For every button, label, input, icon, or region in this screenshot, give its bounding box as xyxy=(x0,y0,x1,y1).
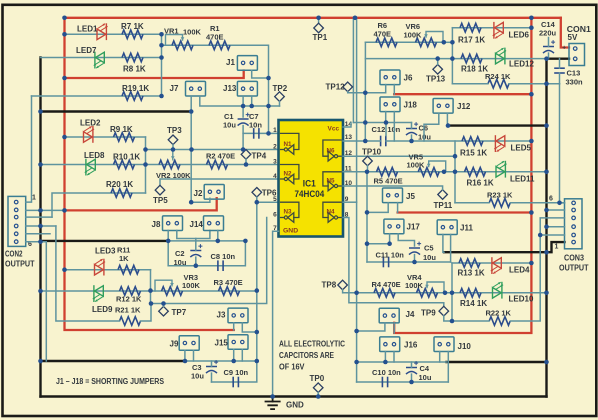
wire J16 legs xyxy=(384,352,386,362)
connector CON1 xyxy=(569,44,585,66)
jumper J6 xyxy=(380,70,400,85)
test point TP9 xyxy=(439,306,449,316)
svg-text:J17: J17 xyxy=(407,223,421,232)
resistor R17 xyxy=(460,23,481,32)
svg-text:LED1: LED1 xyxy=(77,25,98,34)
wire row y243 xyxy=(367,243,390,245)
wire J13 right leg xyxy=(251,96,253,106)
svg-text:J15: J15 xyxy=(215,339,229,348)
svg-text:J8: J8 xyxy=(152,220,161,229)
svg-text:TP8: TP8 xyxy=(322,281,337,290)
LED1 xyxy=(97,29,106,40)
wire LED12 row xyxy=(365,58,546,60)
wire J4 right leg to red xyxy=(393,323,395,333)
potentiometer VR2 xyxy=(159,160,180,169)
wire CON3 pin2 stub xyxy=(540,234,564,236)
wire C12 branch x386 xyxy=(385,123,387,136)
svg-text:4: 4 xyxy=(273,173,277,180)
wire red row J5 to right rail xyxy=(398,211,532,213)
svg-text:J3: J3 xyxy=(217,311,226,320)
svg-text:TP4: TP4 xyxy=(252,152,267,161)
wire row y361 teal part xyxy=(185,360,257,362)
jumper J4 xyxy=(379,308,399,323)
IC U1 74HC04 body xyxy=(279,120,344,237)
wire VR1-R1 row xyxy=(162,45,269,78)
wire R20 row xyxy=(52,193,146,217)
svg-text:220u: 220u xyxy=(539,29,557,38)
wire TP8 / R4 VR4 R14 LED10 row y292.8 xyxy=(343,292,546,294)
resistor R9 xyxy=(114,133,135,142)
wire x365 vertical TP12/J6 to C12 row xyxy=(364,93,366,141)
svg-text:TP7: TP7 xyxy=(172,308,187,317)
LED6 xyxy=(495,22,504,33)
svg-text:TP2: TP2 xyxy=(273,84,288,93)
inverter N1 xyxy=(281,133,299,149)
test point TP5 xyxy=(155,185,165,195)
svg-text:LED3: LED3 xyxy=(95,247,116,256)
potentiometer VR5 xyxy=(418,168,439,177)
svg-text:3: 3 xyxy=(273,158,277,165)
wire LED8 row / pin3 row xyxy=(41,164,279,166)
jumper J17 xyxy=(384,219,404,234)
wire C7 row to IC pin1 xyxy=(243,132,278,134)
svg-text:5V: 5V xyxy=(568,33,578,42)
svg-text:N2: N2 xyxy=(284,171,293,178)
svg-text:R16 1K: R16 1K xyxy=(467,179,494,188)
wire red row CON2 pin2 to J2 xyxy=(65,198,217,210)
wire +V feed vertical x356 (lower right) xyxy=(356,18,358,382)
svg-text:OF 16V: OF 16V xyxy=(279,363,305,372)
svg-text:R14 1K: R14 1K xyxy=(460,299,487,308)
svg-text:R23 1K: R23 1K xyxy=(487,191,513,200)
svg-text:LED8: LED8 xyxy=(84,151,105,160)
capacitor C3 10u xyxy=(206,366,217,368)
test point TP2 xyxy=(275,92,285,102)
wire LED7 row xyxy=(41,57,162,59)
test point TP11 xyxy=(438,190,448,200)
wire GND note-box top / row y361 (black) xyxy=(41,360,186,362)
svg-text:LED5: LED5 xyxy=(511,144,532,153)
svg-text:R24 1K: R24 1K xyxy=(485,72,511,81)
svg-text:74HC04: 74HC04 xyxy=(295,189,325,200)
svg-text:100K: 100K xyxy=(407,161,426,170)
jumper J3 xyxy=(228,308,248,323)
inverter N3 xyxy=(281,202,299,217)
test point TP6 xyxy=(252,188,262,198)
wire J10 legs xyxy=(439,352,441,362)
svg-text:R2 470E: R2 470E xyxy=(206,152,235,161)
wire C3 stub xyxy=(211,361,213,367)
jumper J11 xyxy=(437,220,457,235)
jumper J12 xyxy=(433,99,453,114)
svg-text:C9 10n: C9 10n xyxy=(224,368,249,377)
wire J6 right leg to red row xyxy=(393,85,395,95)
svg-text:TP10: TP10 xyxy=(362,148,382,157)
wire GND row y111 (black) xyxy=(41,110,192,112)
wire J4 left leg xyxy=(357,323,385,331)
wire red feed row y78 xyxy=(65,71,244,79)
svg-text:LED11: LED11 xyxy=(510,175,535,184)
resistor R4 xyxy=(374,289,395,298)
resistor R12 xyxy=(120,287,141,296)
wire Vcc feed vertical x353 xyxy=(352,18,354,123)
svg-text:C4: C4 xyxy=(420,364,430,373)
svg-text:R13 1K: R13 1K xyxy=(458,269,485,278)
svg-text:LED12: LED12 xyxy=(509,60,534,69)
svg-text:N3: N3 xyxy=(284,209,293,216)
resistor R20 xyxy=(111,189,132,198)
wire LED1 row xyxy=(65,33,162,35)
svg-text:J4: J4 xyxy=(406,310,415,319)
wire J11 left leg xyxy=(443,235,444,253)
wire +V top rail (red) xyxy=(65,17,561,19)
wire CON3 pin3 stub xyxy=(547,226,565,228)
svg-text:J5: J5 xyxy=(406,192,415,201)
wire GND row y362 right (black) xyxy=(447,361,547,363)
wire red to CON1 pin1 xyxy=(561,18,569,48)
test point TP1 xyxy=(318,18,320,23)
wire C1 bottom to pin2 row xyxy=(242,126,244,150)
svg-text:R17 1K: R17 1K xyxy=(458,36,485,45)
wire C8 row xyxy=(168,241,245,266)
wire R19 row xyxy=(32,95,162,97)
wire J5 right leg to red xyxy=(397,203,399,213)
wire J13 left leg to C1 xyxy=(242,96,244,117)
LED4 xyxy=(493,258,502,269)
wire J3 right leg xyxy=(242,323,256,332)
svg-text:2: 2 xyxy=(273,143,277,150)
wire J1 right leg xyxy=(252,71,269,79)
wire red row J6 to right rail xyxy=(394,93,531,95)
IC pin7 GND stub xyxy=(273,231,279,396)
wire R24 row to C13 xyxy=(452,83,488,85)
svg-text:J2: J2 xyxy=(194,189,203,198)
test point TP12 xyxy=(343,82,353,92)
wire J3 left leg to red xyxy=(233,323,235,330)
wire CON2 pin6 stub xyxy=(26,242,47,361)
wire J8 left leg xyxy=(167,231,169,266)
capacitor C2 10u xyxy=(190,250,201,252)
wire J7 right leg / row y106 xyxy=(200,96,280,106)
potentiometer VR1 xyxy=(172,41,193,50)
resistor R2 xyxy=(207,160,228,169)
svg-text:R8 1K: R8 1K xyxy=(123,65,146,74)
svg-text:R3 470E: R3 470E xyxy=(214,278,243,287)
resistor R13 xyxy=(459,259,480,268)
jumper J9 xyxy=(179,336,199,351)
wire IC pin5 stub xyxy=(257,201,279,203)
jumper J5 xyxy=(383,188,403,203)
svg-text:C8 10n: C8 10n xyxy=(211,252,236,261)
wire CON3 pin4 stub xyxy=(540,218,564,235)
resistor R24 xyxy=(488,79,509,88)
svg-text:R5 470E: R5 470E xyxy=(374,177,403,186)
wire CON2 pin5 stub xyxy=(26,233,50,235)
wire R6 row left corner xyxy=(364,42,366,93)
svg-text:J9: J9 xyxy=(170,340,179,349)
wire R1 bus x268 vertical xyxy=(268,78,270,133)
wire GND row y125 (black) xyxy=(448,124,547,126)
wire C2 stubs xyxy=(195,239,197,251)
resistor R19 xyxy=(122,92,143,101)
wire J6 left leg xyxy=(365,85,385,93)
svg-text:J11: J11 xyxy=(460,224,473,233)
svg-text:CON3: CON3 xyxy=(564,254,584,263)
wire J15 legs xyxy=(233,349,235,361)
svg-text:C11 10n: C11 10n xyxy=(376,251,405,260)
wire C10 row y382 xyxy=(357,381,449,383)
wire J12 left leg xyxy=(424,113,439,141)
svg-text:C13: C13 xyxy=(567,69,581,78)
LED7 xyxy=(96,52,105,63)
svg-text:470E: 470E xyxy=(374,30,392,39)
capacitor C9 10n xyxy=(232,377,234,388)
wire LED9 row xyxy=(41,290,257,292)
svg-text:LED7: LED7 xyxy=(76,46,97,55)
potentiometer VR6 xyxy=(416,38,437,47)
wire GND right vertical (black) xyxy=(545,59,547,397)
capacitor C6 10u xyxy=(406,128,417,130)
capacitor C7 10n xyxy=(253,128,255,139)
wire pin5 net vertical x257 xyxy=(256,202,258,361)
svg-text:TP9: TP9 xyxy=(421,309,436,318)
svg-text:R22 1K: R22 1K xyxy=(486,309,512,318)
svg-text:10n: 10n xyxy=(249,121,262,130)
wire pin13/LED5 row xyxy=(343,140,380,142)
svg-text:R4 470E: R4 470E xyxy=(372,280,401,289)
wire GND row y252 to CON3 pin1 (black) xyxy=(444,242,565,252)
jumper J7 xyxy=(186,81,206,96)
wire x455 bus vertical xyxy=(454,141,456,203)
LED5 xyxy=(496,136,505,147)
wire LED3 row xyxy=(65,269,151,271)
svg-text:N6: N6 xyxy=(327,148,336,155)
wire J12 right leg xyxy=(446,113,448,126)
test point TP4 xyxy=(241,150,251,160)
wire J11 right leg xyxy=(450,235,452,263)
resistor R23 xyxy=(489,199,510,208)
wire C4 stubs xyxy=(411,362,413,368)
svg-text:1: 1 xyxy=(32,195,36,202)
resistor R10 xyxy=(114,160,135,169)
svg-text:TP13: TP13 xyxy=(426,75,446,84)
wire x452 bus vertical xyxy=(451,263,453,321)
wire LED6 row xyxy=(452,27,531,29)
svg-text:TP12: TP12 xyxy=(326,83,346,92)
svg-text:J1 – J18 = SHORTING JUMPERS: J1 – J18 = SHORTING JUMPERS xyxy=(56,377,165,386)
capacitor C5 10u xyxy=(409,247,420,249)
wire CON2 pin1 stub xyxy=(26,96,32,202)
capacitor C13 330n xyxy=(554,67,565,69)
svg-text:TP5: TP5 xyxy=(153,196,168,205)
svg-text:TP1: TP1 xyxy=(313,33,328,42)
wire CON2 pin4 stub xyxy=(26,225,56,227)
jumper J13 xyxy=(237,81,257,96)
svg-text:-: - xyxy=(563,56,565,63)
jumper J8 xyxy=(163,216,183,231)
wire J18 left leg xyxy=(385,112,387,123)
svg-text:+: + xyxy=(562,44,566,51)
svg-text:N4: N4 xyxy=(327,209,336,216)
svg-text:10u: 10u xyxy=(191,372,204,381)
svg-text:10u: 10u xyxy=(423,253,436,262)
wire pin12 row to x455 bus xyxy=(343,155,455,157)
svg-text:330n: 330n xyxy=(566,78,584,87)
wire teal row y241 xyxy=(168,240,245,242)
svg-text:J1: J1 xyxy=(226,58,235,67)
svg-text:1: 1 xyxy=(555,244,559,251)
svg-text:6: 6 xyxy=(549,196,553,203)
wire pin9 stub xyxy=(343,201,357,203)
wire LED2 row xyxy=(65,136,146,138)
svg-text:ALL ELECTROLYTIC: ALL ELECTROLYTIC xyxy=(279,340,345,349)
wire LED4 row xyxy=(452,262,531,264)
capacitor C11 10n xyxy=(382,257,384,268)
svg-text:1K: 1K xyxy=(119,254,129,263)
svg-text:1: 1 xyxy=(273,127,277,134)
svg-text:C10 10n: C10 10n xyxy=(372,368,401,377)
LED9 xyxy=(95,286,104,297)
wire J7 left leg to GND xyxy=(190,96,192,202)
wire J8 right leg to J14 left leg xyxy=(177,231,210,239)
jumper J18 xyxy=(380,97,400,112)
wire GND row y241 (black) xyxy=(41,240,169,242)
wire CON3 pin6 stub xyxy=(560,202,565,204)
svg-text:R21 1K: R21 1K xyxy=(115,306,141,315)
capacitor C12 10n xyxy=(380,136,382,147)
wire left bus x161 vertical xyxy=(161,34,163,96)
svg-text:J7: J7 xyxy=(170,84,179,93)
wire black to CON1 pin2 xyxy=(547,58,570,60)
wire +V left vertical (red) xyxy=(65,18,234,330)
jumper J15 xyxy=(228,335,248,350)
jumper J16 xyxy=(380,337,400,352)
wire pin4 row to TP5 xyxy=(160,179,279,185)
svg-text:100K: 100K xyxy=(405,281,424,290)
svg-text:LED4: LED4 xyxy=(509,266,530,275)
svg-text:100K: 100K xyxy=(183,28,202,37)
jumper J14 xyxy=(204,216,224,231)
svg-text:10u: 10u xyxy=(223,121,236,130)
svg-text:Vcc: Vcc xyxy=(328,126,340,133)
wire J18 right leg xyxy=(393,112,395,141)
svg-text:470E: 470E xyxy=(206,33,224,42)
capacitor C4 10u xyxy=(406,367,417,369)
svg-text:J14: J14 xyxy=(190,220,204,229)
svg-text:GND: GND xyxy=(283,228,298,235)
svg-text:N5: N5 xyxy=(327,178,336,185)
test point TP8 xyxy=(338,280,348,290)
svg-text:TP3: TP3 xyxy=(167,126,182,135)
wire pin2 row xyxy=(145,137,147,193)
svg-text:C2: C2 xyxy=(175,249,185,258)
svg-text:J18: J18 xyxy=(404,101,418,110)
inverter N5 xyxy=(323,172,341,186)
wire row y362 teal xyxy=(357,361,447,363)
wire J17 right leg to C5 xyxy=(398,234,414,246)
wire J2 left leg xyxy=(191,198,210,202)
svg-text:J13: J13 xyxy=(223,84,237,93)
wire x367 vertical xyxy=(366,172,368,262)
wire J9 legs xyxy=(184,350,186,361)
connector CON3 xyxy=(565,199,583,249)
wire Vcc row y122 + pin14 jog xyxy=(353,122,411,124)
wire R21 row xyxy=(56,226,120,321)
wire pin10 row to TP11 xyxy=(343,186,443,190)
svg-text:CAPCITORS ARE: CAPCITORS ARE xyxy=(279,351,335,360)
svg-text:N1: N1 xyxy=(284,141,293,148)
resistor R1 xyxy=(209,41,230,50)
wire TP7 row (pin6 net) xyxy=(151,218,267,304)
resistor R15 xyxy=(462,137,483,146)
resistor R22 xyxy=(489,317,510,326)
wire VR6 to x452 bus xyxy=(444,41,453,43)
ground symbol xyxy=(272,397,274,402)
wire R22 row xyxy=(452,320,489,322)
wire J14 right leg xyxy=(217,231,219,241)
svg-text:R15 1K: R15 1K xyxy=(460,149,487,158)
svg-text:10u: 10u xyxy=(419,373,432,382)
resistor R3 xyxy=(219,287,240,296)
resistor R7 xyxy=(122,30,143,39)
svg-text:C5: C5 xyxy=(424,244,434,253)
LED8 xyxy=(87,159,96,170)
svg-text:100K: 100K xyxy=(182,281,201,290)
wire C14 stubs xyxy=(548,38,550,47)
svg-text:J12: J12 xyxy=(457,102,471,111)
resistor R8 xyxy=(122,53,143,62)
wire +V right vertical (red) xyxy=(394,18,531,333)
inverter N4 xyxy=(323,202,341,217)
wire C13 stubs xyxy=(559,59,561,68)
wire right blue bus x559 to CON3 pin6 xyxy=(559,84,561,203)
wire x150 vertical xyxy=(150,270,152,304)
svg-text:LED10: LED10 xyxy=(509,295,534,304)
jumper J10 xyxy=(434,337,454,352)
svg-text:J6: J6 xyxy=(404,74,413,83)
svg-text:6: 6 xyxy=(273,211,277,218)
resistor R14 xyxy=(460,289,481,298)
wire J17 left leg xyxy=(389,234,391,244)
wire CON3 pin5 stub xyxy=(547,209,565,211)
svg-text:R7 1K: R7 1K xyxy=(121,22,144,31)
wire GND left vertical (black) xyxy=(39,58,41,397)
wire GND bottom rail (black) xyxy=(41,395,547,397)
svg-text:R9 1K: R9 1K xyxy=(110,125,133,134)
svg-text:J16: J16 xyxy=(404,341,418,350)
resistor R11 xyxy=(118,265,139,274)
LED11 xyxy=(496,167,505,178)
svg-text:R20 1K: R20 1K xyxy=(106,180,133,189)
LED10 xyxy=(493,288,502,299)
inverter N6 xyxy=(323,140,341,156)
svg-text:OUTPUT: OUTPUT xyxy=(5,260,35,269)
resistor R18 xyxy=(461,54,482,63)
wire C11 row y262 xyxy=(367,261,451,263)
svg-text:LED6: LED6 xyxy=(509,31,530,40)
resistor R6 xyxy=(376,38,397,47)
wire J5 left leg xyxy=(367,203,388,213)
potentiometer VR4 xyxy=(417,289,438,298)
svg-text:LED2: LED2 xyxy=(80,119,101,128)
wire CON2 pin2 stub xyxy=(26,209,65,211)
LED12 xyxy=(496,53,505,64)
inverter N2 xyxy=(281,165,299,180)
wire TP9 bottom stem xyxy=(444,316,452,321)
svg-text:IC1: IC1 xyxy=(303,179,317,190)
svg-text:J10: J10 xyxy=(458,342,472,351)
svg-text:CON2: CON2 xyxy=(5,250,23,259)
